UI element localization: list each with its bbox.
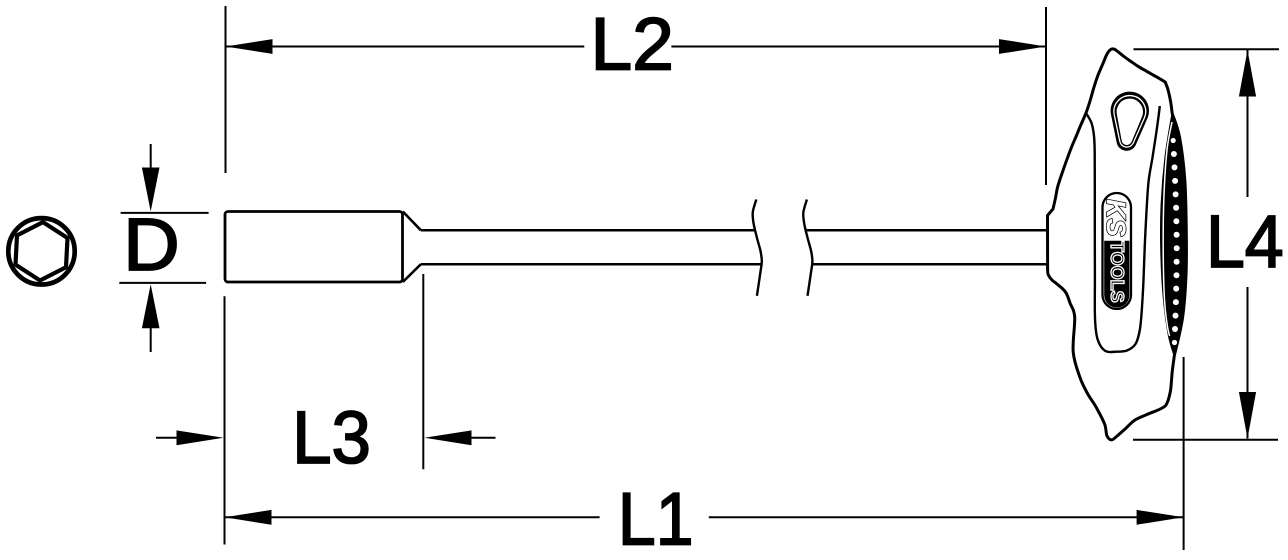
dimension L1 line right <box>709 516 1184 518</box>
logo TOOLS bar <box>1104 241 1129 308</box>
break mark left <box>753 200 762 296</box>
dimension L2 left arrowhead <box>226 39 273 54</box>
dimension L4 line top <box>1247 50 1249 197</box>
dimension L3 left arrow tail <box>156 437 185 439</box>
break mark right <box>803 200 812 296</box>
hex socket symbol circle <box>8 218 74 284</box>
T-handle outline <box>1048 49 1187 440</box>
lens grip dots <box>1171 138 1180 345</box>
dimension L4 bottom arrowhead <box>1239 392 1256 439</box>
dimension L1 right arrowhead <box>1137 510 1184 525</box>
shaft left segment bottom edge <box>421 263 762 266</box>
dimension L2 right extension line <box>1045 7 1047 185</box>
logo stadium <box>1103 193 1132 309</box>
socket head <box>225 212 403 283</box>
dimension D top arrow <box>150 144 152 175</box>
hex socket symbol hexagon <box>16 222 68 280</box>
dimension L4 line bottom <box>1247 287 1249 439</box>
dimension L4 top extension line <box>1134 48 1280 50</box>
socket taper <box>403 212 421 283</box>
hanging hole opening <box>1117 99 1143 145</box>
dimension L1 line left <box>225 516 600 518</box>
dimension L3 right arrowhead <box>425 430 472 445</box>
dimension L4 bottom extension line <box>1133 439 1278 441</box>
svg-text:L3: L3 <box>292 396 371 479</box>
svg-text:TOOLS: TOOLS <box>1107 241 1127 303</box>
dimension L2 left extension line <box>225 6 227 173</box>
dimension L1 left arrowhead <box>225 510 272 525</box>
lens inner white line <box>1163 122 1172 336</box>
dimension D tick bottom <box>119 282 206 284</box>
shaft right segment top edge <box>805 229 1047 232</box>
svg-text:D: D <box>123 203 180 286</box>
svg-text:L4: L4 <box>1206 200 1284 283</box>
dimension L2 right arrowhead <box>999 39 1046 54</box>
hanging hole ring <box>1111 92 1149 151</box>
dimension L3 left arrowhead <box>177 430 224 445</box>
svg-text:L2: L2 <box>591 2 674 85</box>
dimension D tick top <box>121 212 209 214</box>
svg-text:KS: KS <box>1101 199 1131 237</box>
dimension L3 right extension line <box>422 274 424 469</box>
shaft right segment bottom edge <box>813 263 1047 266</box>
hanging hole highlight line <box>1114 96 1146 147</box>
lens grip (black) <box>1161 114 1187 356</box>
dimension L2 line right <box>671 46 1046 48</box>
dimension D bottom arrow <box>150 320 152 352</box>
svg-text:L1: L1 <box>618 478 694 560</box>
dimension L4 top arrowhead <box>1239 50 1256 97</box>
shaft left segment top edge <box>421 229 754 232</box>
dimension L1 left extension line <box>224 296 226 544</box>
dimension L2 line left <box>226 46 585 48</box>
handle inner face contour <box>1086 106 1160 352</box>
dimension L3 right arrow tail <box>465 437 496 439</box>
dimension L1 right extension line <box>1183 357 1185 550</box>
